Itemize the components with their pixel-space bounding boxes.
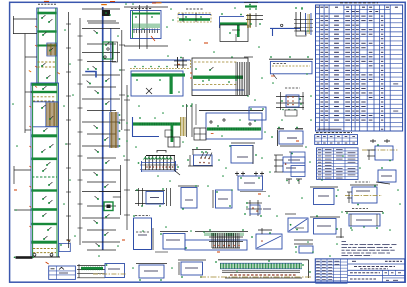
column K1 base line	[30, 256, 60, 258]
detail rect E bottom	[178, 259, 206, 261]
text marks mid	[263, 208, 271, 210]
column K2 orange top tick	[101, 4, 107, 6]
title block name text	[350, 272, 353, 274]
column K1 weld symbols	[42, 15, 45, 18]
detail E4 tall plate bottom	[133, 218, 135, 250]
column K1 red ticks	[35, 26, 37, 28]
column K2 main axis	[102, 7, 104, 250]
detail E5 assembly left part	[163, 234, 185, 250]
scale bar bottom left	[16, 256, 33, 259]
notes text block	[342, 241, 347, 243]
steel summary table 2	[317, 148, 359, 180]
long truss middle lines	[222, 270, 300, 272]
small green mark plate	[296, 229, 298, 231]
detail B2 beam lower	[131, 71, 183, 96]
column K1 base circles	[33, 253, 36, 256]
column K1 flange bands upper	[37, 12, 56, 15]
detail R2 plate	[291, 152, 305, 163]
detail R5 diagonal plate	[288, 218, 308, 232]
specification table footer	[318, 128, 342, 130]
detail D18 plate with text	[231, 142, 255, 144]
title block doc number text	[385, 260, 388, 262]
column K2 secondary axis	[110, 28, 112, 112]
steel summary table title	[316, 132, 319, 134]
detail D6 T-beam	[132, 122, 181, 125]
title block frame	[315, 259, 404, 282]
detail R6 plate	[310, 216, 340, 218]
column K1 dimension lines left	[13, 16, 15, 34]
detail B2 black H member	[177, 57, 179, 68]
detail D17 tall plate	[134, 218, 152, 250]
small tee symbols	[286, 178, 292, 180]
detail D6 right hatch	[180, 117, 182, 136]
misc red accents	[110, 1, 115, 3]
column K2 weld dots	[94, 30, 97, 33]
detail D21 beam with clips	[235, 173, 239, 175]
bottom plate C with centerline	[105, 264, 125, 278]
detail D12 column stub	[295, 12, 297, 31]
specification table cell text	[321, 15, 324, 17]
column K1 hatch block upper	[47, 43, 57, 56]
column K1 upper shaft outline	[37, 8, 57, 83]
detail D13 lattice plate	[146, 155, 175, 157]
detail D25b beam	[350, 184, 378, 186]
column K1 flange bands wide	[32, 83, 57, 86]
detail D14 bolted gusset	[192, 149, 211, 151]
detail D5 crane beam	[199, 110, 263, 112]
column K2 green gusset box	[103, 42, 113, 59]
long truss centerline	[200, 276, 312, 278]
detail B2 beam upper	[128, 59, 191, 61]
column K1 hatch block lower	[46, 102, 58, 127]
long truss right post	[308, 260, 310, 278]
title block left grid	[320, 259, 322, 282]
column K2 top cluster	[102, 10, 110, 16]
title block object text	[354, 266, 357, 268]
long truss green dots	[268, 260, 270, 262]
detail D23 bolted base	[246, 202, 262, 204]
column K1 lower shaft outline	[31, 83, 59, 257]
detail D22 stepped connection	[283, 157, 305, 172]
column K2 right dimension chain	[121, 30, 123, 130]
specification table title	[340, 2, 343, 4]
column K2 blue bracket	[85, 72, 96, 78]
title block left cell text	[316, 260, 320, 262]
detail R3 plate	[291, 166, 305, 177]
detail D10 plate with corner clips	[279, 131, 303, 144]
long truss bottom line	[225, 277, 302, 279]
detail D16 plate elevation	[178, 185, 199, 187]
detail diag plate bottom	[258, 229, 272, 231]
long truss tick band	[220, 262, 302, 264]
column K1 top dimension marks	[38, 3, 40, 5]
detail E5 bar cluster	[211, 233, 213, 248]
detail D19 plate left	[216, 190, 233, 208]
long truss top chord	[218, 259, 309, 261]
detail small plate right bottom	[294, 239, 313, 241]
detail D11 tee with leader	[246, 15, 263, 17]
dimension chain between columns	[68, 12, 70, 248]
column K2 tie dimension lines	[82, 8, 120, 10]
detail D28 plate	[378, 170, 396, 182]
detail D2 beam with dashed outline	[178, 13, 211, 22]
column K1 flange bands lower	[32, 134, 57, 137]
detail D9 plate	[249, 107, 266, 120]
specification table header text	[316, 6, 319, 8]
long truss red dash row	[230, 274, 233, 276]
detail D27 beam with centerline	[362, 149, 398, 151]
column K1 side bracket	[59, 243, 70, 251]
detail D1 base plate	[124, 6, 168, 8]
specification table grid	[316, 5, 403, 131]
detail D3 bracket	[220, 15, 245, 17]
detail R4 plate	[310, 186, 338, 188]
title block stage text	[350, 278, 353, 280]
detail D7 beam with plates	[269, 58, 313, 60]
detail D3a small gusset	[245, 5, 257, 7]
column K2 bottom beam detail	[77, 265, 105, 267]
detail D8 bolted connection	[276, 96, 304, 98]
column K1 dashed lines	[38, 61, 57, 63]
detail D15 base plan view	[135, 190, 165, 192]
misc weld dots field	[125, 3, 127, 5]
column K2 green base square	[104, 202, 113, 211]
steel summary table 1	[315, 135, 358, 145]
detail D4 big beam	[192, 58, 248, 96]
detail E5 beam band	[195, 231, 248, 233]
title block right rows	[348, 263, 405, 265]
red tick under scale bar	[46, 262, 49, 264]
column K1 bottom table	[49, 266, 76, 279]
detail D26 wide beam	[345, 211, 383, 213]
column K1 orange side ticks	[29, 71, 31, 73]
column K2 hatch block	[109, 112, 111, 148]
orange dash top	[156, 2, 162, 4]
detail rect D bottom	[139, 265, 164, 278]
